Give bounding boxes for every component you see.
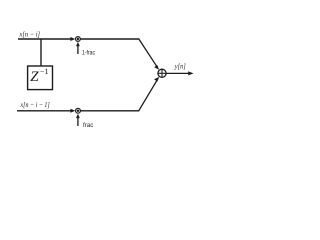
wire top horizontal right segment <box>80 38 139 40</box>
wire branch vertical to delay block <box>40 39 42 66</box>
adder <box>158 69 166 77</box>
delay block Z^-1 <box>28 66 53 90</box>
svg-text:y[n]: y[n] <box>174 61 186 70</box>
multiplier M2 (frac) <box>76 108 81 113</box>
wire bottom diagonal into adder <box>139 80 157 111</box>
output wire y[n] <box>166 72 189 74</box>
svg-text:Z: Z <box>30 69 39 85</box>
wire top horizontal left segment <box>18 38 73 40</box>
coefficient arrow into M1 <box>77 45 79 54</box>
arrowhead into top multiplier <box>70 37 75 41</box>
wire top diagonal into adder <box>139 39 157 67</box>
arrowhead into bottom multiplier <box>70 109 75 113</box>
svg-text:x[n − i − 1]: x[n − i − 1] <box>20 100 50 109</box>
wire bottom horizontal right segment <box>80 110 139 112</box>
svg-text:1-frac: 1-frac <box>82 49 95 56</box>
svg-text:x[n − i]: x[n − i] <box>19 30 40 39</box>
coefficient arrow into M2 <box>77 117 79 126</box>
wire bottom horizontal left segment <box>17 110 73 112</box>
svg-text:frac: frac <box>83 122 93 129</box>
svg-text:−1: −1 <box>40 67 49 76</box>
multiplier M1 (1-frac) <box>76 37 81 42</box>
